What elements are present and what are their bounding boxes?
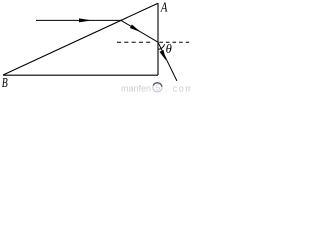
svg-text:B: B xyxy=(2,76,8,91)
prism vertical face AC xyxy=(157,3,159,75)
incident ray xyxy=(36,19,121,21)
prism hypotenuse face AB xyxy=(3,3,158,75)
refracted ray inside prism xyxy=(121,20,158,42)
svg-text:. com: . com xyxy=(165,83,191,93)
exit ray arrowhead xyxy=(160,50,167,61)
exit ray xyxy=(158,42,177,81)
watermark circle logo xyxy=(153,83,162,92)
svg-text:5: 5 xyxy=(156,84,161,93)
svg-text:manfen: manfen xyxy=(121,83,151,93)
incident ray arrowhead xyxy=(79,18,92,22)
angle arc xyxy=(158,44,164,49)
svg-text:θ: θ xyxy=(166,41,173,56)
normal dashed line left part xyxy=(117,41,151,43)
refracted ray arrowhead xyxy=(130,25,141,33)
watermark circle dark top arc xyxy=(153,83,162,87)
normal dashed line right part xyxy=(159,41,189,43)
svg-text:A: A xyxy=(160,1,168,16)
prism bottom face BC xyxy=(3,74,158,76)
